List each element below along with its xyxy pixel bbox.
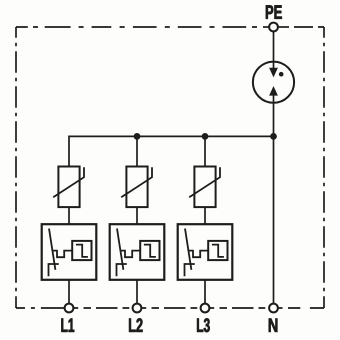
box F1 monitor square [72, 241, 91, 260]
label N [269, 319, 278, 332]
varistor RV1 (L1 branch) [53, 167, 84, 225]
junction dot (bus / N line) [270, 133, 277, 140]
terminal PE [269, 23, 278, 32]
terminal L2 [133, 304, 142, 313]
varistor RV2 (L2 branch) [121, 167, 152, 225]
spark gap indicator dot [279, 72, 284, 77]
disconnector/monitor box F1 (L1 branch) [42, 224, 97, 304]
wire box F2 to terminal L2 [136, 280, 138, 304]
box F2 pulse waveform link [120, 251, 140, 258]
box F2 disconnector contact angle [117, 264, 127, 276]
box F2 outline [110, 224, 165, 280]
varistor RV3 body [194, 167, 215, 208]
box F2 monitor step glyph [144, 245, 156, 257]
box F1 disconnector blade [49, 229, 55, 270]
box F3 pulse waveform link [188, 251, 208, 258]
varistor RV3 (L3 branch) [189, 167, 220, 225]
wire bus to varistor branch L3 [204, 136, 206, 166]
terminal L1 [65, 304, 74, 313]
label L2 [129, 318, 142, 332]
label L3 [197, 318, 210, 332]
equipment boundary frame right edge (dash-dot) [323, 27, 325, 308]
bus wire (L1 branch up and across to N line) [69, 136, 274, 166]
equipment boundary frame bottom edge (dash-dot, explicit segments) [16, 307, 324, 309]
disconnector/monitor box F3 (L3 branch) [178, 224, 233, 304]
wire RV3 to box F3 [204, 207, 206, 224]
equipment boundary frame top edge (dash-dot, explicit segments) [16, 26, 324, 28]
wire PE terminal to spark gap [273, 31, 275, 69]
box F1 pulse waveform link [52, 251, 72, 258]
box F3 outline [178, 224, 233, 280]
wire stub right of PE terminal [278, 26, 290, 28]
varistor RV1 body [58, 167, 79, 208]
box F2 disconnector blade [117, 229, 123, 270]
wire stub left of PE terminal [263, 26, 270, 28]
wire box F1 to terminal L1 [68, 280, 70, 304]
junction dot (bus / L2 branch) [134, 133, 141, 140]
wire RV2 to box F2 [136, 207, 138, 224]
wire box F3 to terminal L3 [204, 280, 206, 304]
varistor RV1 strike line [53, 167, 84, 197]
spark gap U1 (gas discharge tube circle) [253, 62, 294, 103]
wire spark gap to N terminal [273, 95, 275, 304]
label PE [266, 5, 282, 18]
label L1 [61, 319, 74, 332]
box F2 monitor square [140, 241, 159, 260]
wire bus to varistor branch L2 [136, 136, 138, 166]
varistor RV3 strike line [189, 167, 220, 197]
box F3 monitor step glyph [212, 245, 224, 257]
box F3 disconnector contact angle [185, 264, 195, 276]
varistor RV2 strike line [121, 167, 152, 197]
varistor RV2 body [126, 167, 147, 208]
terminal N [269, 304, 278, 313]
spark gap lower arrow [269, 86, 278, 96]
equipment boundary frame left edge (dash-dot) [15, 27, 17, 308]
spark gap upper arrow [269, 68, 278, 78]
disconnector/monitor box F2 (L2 branch) [110, 224, 165, 304]
box F1 disconnector contact angle [49, 264, 59, 276]
box F3 monitor square [208, 241, 227, 260]
box F3 disconnector blade [185, 229, 191, 270]
box F1 monitor step glyph [76, 245, 88, 257]
box F1 outline [42, 224, 97, 280]
terminal L3 [201, 304, 210, 313]
wire RV1 to box F1 [68, 207, 70, 224]
junction dot (bus / L3 branch) [202, 133, 209, 140]
